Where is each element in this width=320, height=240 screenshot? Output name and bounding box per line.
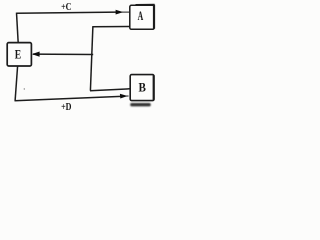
svg-text:B: B xyxy=(139,79,147,94)
block A thick right edge (scan shading) xyxy=(153,5,155,29)
wire: branch from junction to E xyxy=(33,53,93,55)
block B scan shadow blob below box xyxy=(130,103,151,106)
arrowhead into B left edge xyxy=(120,94,128,99)
block A box xyxy=(130,5,154,29)
wire: vertical from E bottom to bottom-left corner xyxy=(15,66,18,101)
svg-text:A: A xyxy=(138,9,144,23)
arrowhead into E right edge xyxy=(32,52,40,57)
wire: junction horizontal into B left edge xyxy=(90,89,130,91)
wire: vertical from E top to top-left corner xyxy=(17,13,19,43)
svg-text:E: E xyxy=(15,48,21,62)
block A thick top edge right portion (scan shading) xyxy=(136,4,155,6)
svg-text:+C: +C xyxy=(61,2,71,13)
wire: top horizontal from corner to block A (+C path) xyxy=(17,12,117,13)
wire: junction vertical xyxy=(90,26,93,91)
block E box xyxy=(7,43,31,66)
block B thick right edge (scan shading) xyxy=(153,75,155,100)
block B fuzzy lower edge (scan) xyxy=(132,101,153,103)
wire: from A left edge toward junction (A output) xyxy=(93,26,130,28)
stray scan speck near bottom-left wire xyxy=(24,88,25,89)
wire: thin continuation under arrowhead toward B xyxy=(120,95,129,97)
block B box xyxy=(130,75,154,101)
svg-text:+D: +D xyxy=(61,102,71,113)
wire: bottom horizontal to B (+D path) xyxy=(15,96,122,100)
wire: thin continuation under arrowhead to A left edge xyxy=(116,11,130,13)
arrowhead into A left edge xyxy=(116,10,124,15)
